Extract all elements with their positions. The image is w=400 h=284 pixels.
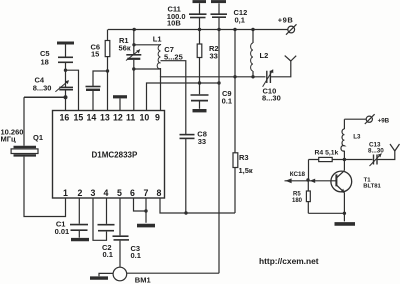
svg-text:ВМ1: ВМ1 <box>135 275 151 284</box>
svg-text:13: 13 <box>100 113 110 123</box>
svg-text:18: 18 <box>41 58 49 67</box>
svg-text:+9В: +9В <box>278 16 294 25</box>
svg-text:0.1: 0.1 <box>103 250 113 259</box>
svg-text:R5: R5 <box>293 192 301 198</box>
svg-text:C5: C5 <box>40 49 50 58</box>
svg-text:33: 33 <box>198 137 206 146</box>
svg-text:3: 3 <box>91 188 96 198</box>
svg-text:5: 5 <box>117 188 122 198</box>
svg-text:4: 4 <box>104 188 109 198</box>
svg-text:+9В: +9В <box>378 117 390 124</box>
svg-text:14: 14 <box>87 113 97 123</box>
svg-text:16: 16 <box>60 113 70 123</box>
svg-text:Т1: Т1 <box>364 178 372 184</box>
svg-text:0.01: 0.01 <box>55 227 70 236</box>
svg-text:11: 11 <box>126 113 135 123</box>
svg-text:D1MC2833P: D1MC2833P <box>92 151 138 160</box>
svg-text:15: 15 <box>74 113 84 123</box>
svg-text:L1: L1 <box>153 35 162 44</box>
svg-text:8...30: 8...30 <box>33 84 52 93</box>
svg-text:http://cxem.net: http://cxem.net <box>259 256 319 266</box>
svg-text:7: 7 <box>144 188 149 198</box>
svg-text:L2: L2 <box>260 51 269 60</box>
svg-text:8: 8 <box>157 188 162 198</box>
svg-text:10: 10 <box>140 113 150 123</box>
svg-text:BLT81: BLT81 <box>363 184 381 190</box>
svg-text:2: 2 <box>78 188 83 198</box>
svg-text:10В: 10В <box>167 19 181 28</box>
svg-text:КС18: КС18 <box>290 171 306 178</box>
svg-text:0,1: 0,1 <box>235 15 245 24</box>
svg-text:R4 5,1k: R4 5,1k <box>315 149 339 156</box>
svg-text:Q1: Q1 <box>33 133 43 142</box>
svg-text:12: 12 <box>113 113 123 123</box>
svg-text:0.1: 0.1 <box>222 97 232 106</box>
svg-text:6: 6 <box>130 188 135 198</box>
svg-text:5...25: 5...25 <box>164 53 183 62</box>
svg-text:1,5к: 1,5к <box>239 166 253 175</box>
svg-text:МГц: МГц <box>1 135 16 144</box>
svg-text:R3: R3 <box>239 153 249 162</box>
svg-text:33: 33 <box>210 51 218 60</box>
svg-text:180: 180 <box>292 198 303 204</box>
svg-text:56к: 56к <box>119 44 131 53</box>
svg-text:8...30: 8...30 <box>368 148 384 155</box>
svg-text:L3: L3 <box>353 134 361 141</box>
svg-text:8...30: 8...30 <box>262 94 281 103</box>
svg-text:9: 9 <box>155 113 160 123</box>
svg-text:15: 15 <box>91 50 99 59</box>
svg-text:0.1: 0.1 <box>131 251 141 260</box>
svg-text:1: 1 <box>63 188 68 198</box>
